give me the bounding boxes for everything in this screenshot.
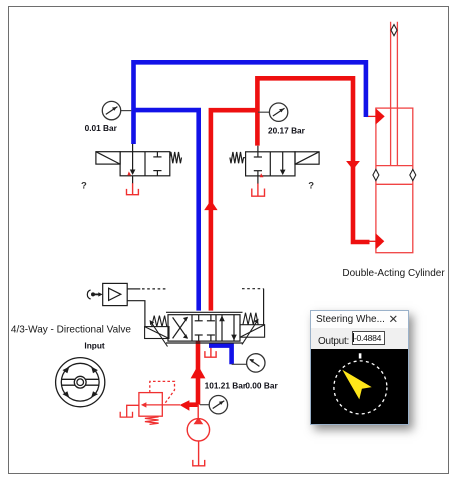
- flow arrow up on pump riser: [191, 365, 206, 378]
- V1 body: [120, 152, 170, 176]
- V2 passage arrowhead: [280, 170, 286, 176]
- cylinder rod: [390, 22, 392, 166]
- relief valve RV1: [120, 381, 180, 424]
- svg-text:?: ?: [81, 181, 87, 192]
- V1 passage arrowhead: [130, 170, 136, 176]
- tank T3 at 4/3 valve T-port: [205, 343, 216, 357]
- flow arrow left toward relief valve: [180, 400, 190, 411]
- V3 up arrowhead: [219, 316, 225, 322]
- V1 blocked port Ts: [156, 152, 158, 157]
- wire: blue T-port drain to gauge G3: [209, 346, 232, 365]
- output field: [352, 331, 385, 345]
- gauge G3 connector wire: [232, 363, 247, 365]
- diamond marker on piston left: [373, 169, 379, 180]
- svg-text:20.17 Bar: 20.17 Bar: [268, 126, 306, 136]
- svg-text:Double-Acting Cylinder: Double-Acting Cylinder: [342, 268, 445, 279]
- wire: red line junction to valve V2 and over to cylinder bottom: [257, 78, 369, 242]
- steering canvas: [311, 349, 408, 424]
- cylinder piston: [376, 165, 413, 167]
- 4/3-way proportional valve V3: [166, 312, 243, 343]
- wire: red pump riser to 4/3 P port: [196, 342, 201, 405]
- steering dial dashed circle: [334, 361, 387, 414]
- steering wheel input W1: [56, 358, 105, 407]
- svg-text:0.00 Bar: 0.00 Bar: [245, 381, 278, 391]
- wire: dashed pilot line left part: [142, 288, 167, 290]
- wire: red stub junction to relief arrow: [189, 402, 198, 407]
- tank T5 (pump suction): [193, 460, 205, 466]
- wire: amplifier top output (solid start): [127, 288, 140, 290]
- RV1 pilot dashed: [150, 381, 175, 404]
- RV1 spring: [145, 417, 159, 425]
- V3 left position crossed paths: [173, 317, 188, 338]
- flow arrow up on red riser (A port line): [204, 200, 217, 210]
- gauge G4 connector wire: [200, 404, 209, 406]
- wire: dashed pilot line right part: [242, 288, 264, 290]
- V2 body: [246, 152, 295, 176]
- wire: blue branch to 4/3 valve B port: [134, 110, 199, 311]
- S1 proportional arrowhead: [150, 320, 155, 325]
- RV1 drain to tank T4: [127, 405, 139, 417]
- V2 spring: [230, 152, 246, 163]
- V3 proportional rails: [166, 311, 243, 313]
- window title bar: [311, 311, 408, 328]
- cylinder C1 body: [376, 22, 413, 253]
- V2 passage with arrow: [282, 152, 284, 173]
- V3 left proportional solenoid S1: [145, 316, 169, 347]
- svg-text:?: ?: [308, 181, 314, 192]
- wire: pilot drop to right solenoid: [263, 289, 265, 325]
- pressure gauge G1: [102, 101, 120, 119]
- wire: blue return line from valve V1 up/over to cylinder rod side: [134, 62, 366, 144]
- svg-text:0.01 Bar: 0.01 Bar: [85, 123, 118, 133]
- V3 down arrowhead: [231, 335, 237, 341]
- V1 solenoid box: [96, 152, 120, 164]
- V3 right position parallel paths: [221, 315, 223, 341]
- wire: port stub cylinder top (thin red): [366, 115, 376, 117]
- V1 bottom port stub: [132, 176, 134, 183]
- V1 spring: [170, 152, 182, 163]
- diamond marker on rod end: [391, 25, 397, 36]
- pressure gauge G2: [269, 103, 287, 121]
- V2 red flow flag: [260, 173, 264, 177]
- V2 blocked port Ts: [257, 152, 259, 157]
- wire: amplifier to left solenoid: [127, 301, 145, 327]
- RV1 internal arrowhead: [141, 402, 147, 407]
- svg-text:4/3-Way - Directional Valve: 4/3-Way - Directional Valve: [11, 324, 131, 335]
- P1 direction triangle: [194, 417, 204, 424]
- pressure gauge G4: [209, 396, 227, 414]
- V2 bottom port stub: [257, 176, 259, 184]
- steering dial top tick: [359, 353, 362, 358]
- flow arrow into cylinder bottom port: [376, 233, 385, 249]
- wire: port stub cylinder bottom (thin red): [369, 240, 376, 242]
- output label: [318, 336, 349, 347]
- valve V1 (3/2 solenoid valve): [96, 144, 182, 183]
- flow arrow down on cylinder feed line: [346, 161, 360, 170]
- V3 body: [168, 315, 240, 341]
- V1 passage with arrow: [132, 152, 134, 173]
- V2 solenoid box: [295, 152, 319, 164]
- window title: [316, 314, 385, 325]
- gauge G2 connector wire: [258, 111, 270, 113]
- tank T4: [120, 412, 132, 417]
- window close button: [389, 312, 399, 326]
- V1 top port stub: [132, 144, 134, 152]
- svg-text:Input: Input: [84, 341, 105, 351]
- gauge G1 connector wire: [121, 110, 132, 112]
- V2 top port stub: [257, 146, 259, 152]
- W1 rotation arrowheads: [63, 367, 70, 374]
- V3 right proportional solenoid S2: [240, 313, 265, 345]
- steering pointer: [342, 370, 371, 400]
- wire: red pressure line 4/3 A port up to junction: [211, 110, 258, 310]
- tank T2 under valve V2: [252, 183, 265, 196]
- svg-text:101.21 Bar: 101.21 Bar: [205, 381, 247, 391]
- V1 red flow flag: [127, 171, 131, 175]
- flow arrow into cylinder top port: [376, 108, 385, 124]
- V3 center position blocked Ts: [198, 315, 200, 321]
- steering wheel control window: [310, 310, 409, 425]
- valve V2 (3/2 solenoid valve, mirrored): [230, 146, 319, 184]
- op-amp U1 (signal amplifier): [103, 283, 128, 305]
- U1 input connector: [87, 290, 102, 299]
- tank T1 under valve V1: [127, 183, 139, 195]
- V3 crossed path arrowheads: [183, 317, 188, 322]
- pressure gauge G3: [247, 354, 265, 372]
- S2 proportional arrowhead: [254, 319, 259, 324]
- pump P1: [187, 405, 209, 466]
- diamond marker on piston right: [410, 169, 416, 180]
